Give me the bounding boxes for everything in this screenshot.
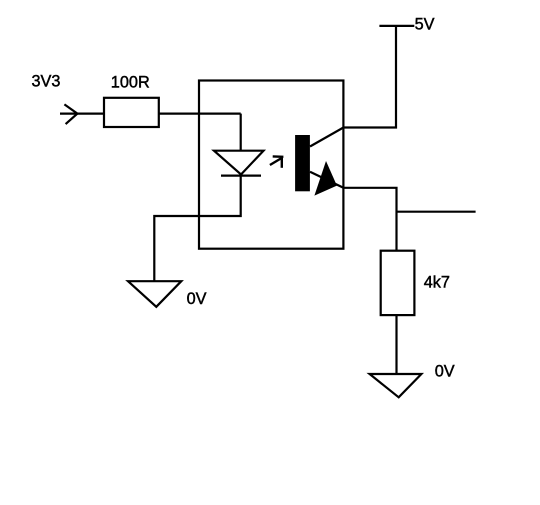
phototransistor Q1 base bar: [295, 135, 310, 191]
phototransistor emitter line: [310, 172, 343, 188]
LED anode wire: [240, 114, 242, 151]
5V supply bar: [379, 25, 414, 27]
wire collector to 5V: [343, 26, 396, 128]
phototransistor emitter arrowhead: [314, 161, 337, 196]
resistor R1: [104, 98, 159, 127]
input arrow: [64, 104, 77, 124]
phototransistor collector line: [310, 128, 343, 147]
wire R2 to ground: [395, 315, 397, 374]
svg-text:100R: 100R: [111, 73, 150, 91]
wire input: [60, 112, 104, 114]
resistor R2: [381, 251, 415, 315]
wire R1 to LED anode: [159, 112, 241, 114]
ground left: [128, 281, 181, 307]
svg-text:4k7: 4k7: [424, 273, 450, 291]
wire output: [397, 211, 476, 213]
svg-text:5V: 5V: [415, 15, 435, 33]
light arrow: [270, 156, 284, 167]
optocoupler U1 package: [199, 81, 343, 249]
LED D1: [214, 151, 264, 175]
svg-text:0V: 0V: [187, 290, 207, 308]
wire LED cathode to ground: [154, 176, 240, 282]
svg-text:0V: 0V: [435, 362, 455, 380]
wire emitter to R2: [343, 188, 396, 251]
ground right: [370, 374, 422, 397]
svg-text:3V3: 3V3: [32, 73, 61, 91]
LED D1 cathode bar: [221, 175, 261, 177]
